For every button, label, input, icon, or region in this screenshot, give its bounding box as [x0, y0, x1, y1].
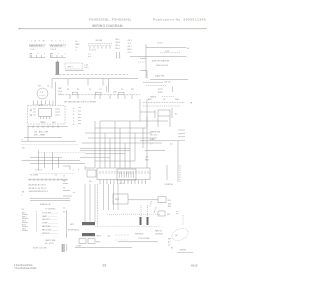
jpeg artifact dot — [191, 102, 192, 103]
switch SW2 base wire — [50, 57, 66, 59]
board drop wire e — [108, 184, 110, 210]
board drop wire b — [89, 184, 91, 222]
svg-text:GR GN: GR GN — [165, 82, 172, 84]
supply wire L1 — [146, 47, 186, 49]
svg-text:J2: J2 — [63, 176, 65, 178]
wire h8 — [85, 153, 125, 155]
fuse block lead — [63, 165, 70, 167]
svg-text:SENSOR ––––––––: SENSOR –––––––– — [42, 233, 58, 235]
svg-text:J4: J4 — [55, 175, 57, 177]
wire run 2 — [22, 140, 77, 142]
wire v1 — [94, 121, 96, 168]
svg-text:COMP ––––––––––: COMP –––––––––– — [42, 223, 58, 225]
wire h10 — [95, 160, 135, 162]
wire v4 — [109, 138, 111, 168]
switch SW1 contact row — [29, 43, 46, 45]
wire v12 — [146, 99, 148, 168]
svg-text:8-18: 8-18 — [168, 203, 171, 205]
wire h4 — [88, 137, 157, 139]
svg-text:60HZ 1PH 15A FUSE: 60HZ 1PH 15A FUSE — [152, 59, 170, 62]
thermostat pair pins — [116, 52, 118, 58]
splice mark — [66, 244, 68, 251]
svg-text:FAN EVAP ––––––: FAN EVAP –––––– — [42, 225, 57, 228]
shield pin — [172, 87, 174, 93]
dashed branch wire — [138, 61, 146, 63]
timer terminal node 1 — [30, 109, 32, 111]
valve wire — [128, 199, 158, 201]
connector J1 pin ticks — [100, 171, 148, 174]
control board edge connector J1 — [97, 168, 150, 180]
svg-text:T T T: T T T — [51, 54, 68, 56]
svg-text:3 4: 3 4 — [170, 144, 173, 146]
harness trunk vertical — [145, 44, 147, 78]
wire v11 — [142, 128, 144, 148]
svg-text:L-55: L-55 — [85, 64, 89, 66]
svg-text:GN 7: GN 7 — [128, 46, 132, 48]
bracket right — [66, 210, 68, 238]
bus drop wire B — [67, 79, 69, 86]
wire v10 — [139, 99, 141, 121]
svg-text:P11: P11 — [131, 89, 134, 91]
fan motor box 1 — [79, 239, 86, 244]
svg-text:L1 N G: L1 N G — [157, 42, 163, 44]
timer left feed wire — [27, 126, 29, 142]
motor terminal strip — [33, 104, 55, 106]
svg-text:4–: 4– — [73, 117, 75, 119]
splice bus upper (dashed) — [107, 213, 160, 215]
splice drop v2 — [147, 205, 149, 217]
dotted cable run 2 — [38, 152, 85, 154]
svg-text:3–: 3– — [73, 114, 75, 116]
svg-text:15A FUSE SEE NOTE 2: 15A FUSE SEE NOTE 2 — [29, 190, 48, 193]
wire v6 — [119, 128, 121, 168]
svg-text:BU 4: BU 4 — [22, 225, 26, 227]
wire h5 — [82, 142, 162, 144]
svg-text:K2: K2 — [175, 114, 177, 116]
ground dashed spur — [146, 85, 166, 87]
svg-text:BR 8: BR 8 — [128, 49, 132, 51]
svg-text:L N G W: L N G W — [31, 41, 46, 43]
splice bar S2 — [147, 217, 149, 225]
svg-text:FRZ LIGHT SW: FRZ LIGHT SW — [50, 45, 62, 47]
wire v9 — [134, 133, 136, 161]
riser wire d — [58, 157, 60, 168]
dotted tie line 2 — [115, 239, 128, 241]
svg-text:REG: REG — [145, 160, 149, 162]
board rail wire — [97, 184, 99, 226]
selector switch S3 contact strip — [88, 43, 112, 45]
long drop wire — [177, 141, 179, 182]
aux contact box — [158, 211, 165, 216]
svg-text:T T T: T T T — [31, 54, 48, 56]
inspection stamp — [170, 226, 190, 242]
svg-text:12: 12 — [63, 207, 65, 209]
svg-text:(CAB) GRN: (CAB) GRN — [155, 75, 165, 78]
dotted cable run — [22, 144, 80, 146]
wire h2 — [95, 127, 147, 129]
bus drop wire C — [87, 79, 89, 86]
svg-text:P1: P1 — [67, 89, 69, 91]
svg-text:1 2: 1 2 — [150, 144, 153, 146]
svg-text:YL 6: YL 6 — [128, 43, 132, 45]
svg-text:1 2 3 4 5: 1 2 3 4 5 — [89, 50, 96, 52]
wire h9 — [80, 156, 110, 158]
svg-text:WH-2: WH-2 — [116, 42, 121, 44]
splice drop v1 — [140, 205, 142, 217]
bottom bus wire — [75, 247, 132, 249]
left column wire 2 — [63, 190, 70, 192]
svg-text:P9: P9 — [121, 89, 123, 91]
wire h1 — [100, 120, 168, 122]
svg-text:GN 5: GN 5 — [22, 229, 26, 231]
svg-text:EVAP: EVAP — [150, 138, 155, 141]
solenoid V1 — [158, 197, 166, 203]
wire v5 — [114, 121, 116, 168]
svg-text:P6: P6 — [22, 209, 24, 211]
wire v2 — [99, 121, 101, 168]
svg-text:BK-1: BK-1 — [116, 39, 120, 41]
splice bars — [61, 244, 63, 252]
mullion heater bar — [82, 233, 95, 236]
terminal strip row 2 — [143, 105, 180, 107]
svg-text:8HR – 21MIN: 8HR – 21MIN — [34, 135, 46, 137]
serial underline — [118, 241, 158, 243]
svg-text:F-10: F-10 — [85, 67, 89, 69]
twin cable run lower — [30, 199, 70, 201]
motor terminal pins — [33, 101, 35, 105]
strip drop wires — [69, 95, 71, 99]
tick rows — [178, 129, 185, 131]
wire h3 — [85, 132, 152, 134]
svg-text:MTR: MTR — [39, 105, 44, 107]
shield dash marks — [162, 95, 174, 97]
svg-text:DESIGN: DESIGN — [180, 249, 187, 251]
drop wire r1 — [146, 116, 148, 127]
svg-text:BK WH RD BU OR YL: BK WH RD BU OR YL — [29, 185, 47, 187]
neutral wire N — [130, 56, 186, 58]
heater lead wire — [56, 60, 58, 62]
resistor R1 — [73, 92, 78, 95]
svg-text:FILL: FILL — [167, 214, 171, 216]
svg-text:OR 5: OR 5 — [128, 40, 132, 42]
dotted underline — [33, 173, 75, 175]
svg-text:DOOR SW –––––––: DOOR SW ––––––– — [42, 212, 58, 214]
svg-text:LAMP ––––––––––: LAMP –––––––––– — [42, 215, 57, 218]
feed wire — [140, 111, 155, 113]
svg-text:SHLD: SHLD — [158, 92, 163, 94]
riser — [154, 110, 156, 118]
tick pair — [176, 211, 179, 213]
svg-text:242169201: 242169201 — [155, 233, 163, 235]
svg-text:e 4: e 4 — [73, 192, 75, 194]
svg-text:SOL: SOL — [168, 200, 172, 202]
svg-text:GND LUG 8-32: GND LUG 8-32 — [156, 65, 168, 67]
svg-text:4 3 2 1: 4 3 2 1 — [119, 183, 125, 185]
aux relay K1 — [87, 170, 96, 177]
resistor R2 — [96, 92, 102, 95]
timer terminal node 2 — [30, 114, 32, 116]
wire run 5 — [30, 162, 85, 164]
svg-text:SER MOD: SER MOD — [135, 234, 144, 236]
svg-text:2 4 6 8: 2 4 6 8 — [51, 49, 57, 51]
svg-text:CAB LIGHT SW: CAB LIGHT SW — [30, 44, 42, 47]
svg-text:P4 CONN: P4 CONN — [30, 175, 39, 177]
wire run 1 — [24, 137, 62, 139]
svg-text:# Functional Parts: # Functional Parts — [14, 264, 33, 267]
svg-text:RUN: RUN — [58, 94, 63, 96]
svg-text:NOTE: COLORS: NOTE: COLORS — [33, 247, 47, 249]
dotted tie line 1 — [115, 234, 130, 236]
svg-text:1BK 2WH 3RD 4BU 5OR 6YL: 1BK 2WH 3RD 4BU 5OR 6YL 7GN 8BR — [64, 102, 97, 104]
svg-text:OL: OL — [47, 86, 49, 88]
ground bus wire — [150, 79, 188, 81]
drop wire r3 — [169, 116, 171, 127]
svg-text:K1+: K1+ — [89, 181, 92, 183]
svg-text:RIBBON 14P: RIBBON 14P — [40, 204, 51, 206]
wire v7 — [124, 143, 126, 168]
selector switch S3 contact pins — [89, 46, 91, 49]
relay feed wire — [85, 167, 95, 169]
bus drop wire E — [108, 79, 110, 93]
svg-text:P7: P7 — [100, 89, 102, 91]
board drop wire d — [103, 184, 105, 210]
svg-text:FSH533SQL, FSH533A5L: FSH533SQL, FSH533A5L — [89, 17, 132, 21]
timer cam pins — [40, 117, 42, 120]
svg-text:T-STAT NO: T-STAT NO — [164, 183, 174, 186]
svg-text:L1 BK: L1 BK — [76, 245, 82, 247]
icemaker connector box — [117, 169, 136, 180]
board drop wire a — [84, 184, 86, 222]
connector J1 lower pins — [100, 180, 146, 185]
svg-text:SEL SW: SEL SW — [96, 40, 103, 42]
svg-text:P5: P5 — [89, 89, 91, 91]
svg-text:2–: 2– — [73, 111, 75, 113]
svg-text:NTC 25C: NTC 25C — [150, 135, 158, 137]
heater bar H2 — [82, 222, 95, 225]
twin cable run upper — [30, 197, 70, 199]
defrost thermostat box (dashed) — [65, 63, 83, 69]
relay K2 — [158, 110, 170, 116]
svg-text:BU-4: BU-4 — [116, 48, 120, 50]
svg-text:FAN COND ––––––: FAN COND –––––– — [42, 228, 58, 231]
svg-text:WH 2: WH 2 — [22, 217, 27, 219]
svg-text:CAVITY REF: CAVITY REF — [45, 239, 56, 242]
svg-text:F C G L: F C G L — [52, 41, 66, 43]
main bus wire — [52, 78, 138, 80]
wire v3 — [104, 133, 106, 168]
svg-text:6919: 6919 — [191, 263, 198, 267]
svg-text:WIRING DIAGRAM: WIRING DIAGRAM — [92, 24, 123, 28]
ground spur wire — [143, 81, 163, 83]
svg-text:TIMER: TIMER — [40, 122, 46, 124]
svg-text:* Non-Illustrated Parts: * Non-Illustrated Parts — [14, 267, 37, 270]
cable loom run — [55, 74, 128, 76]
svg-text:2 3 4 1 5: 2 3 4 1 5 — [35, 170, 42, 172]
svg-text:THERM 10K: THERM 10K — [150, 131, 161, 133]
stub wire — [140, 57, 146, 59]
bus drop wire D — [102, 79, 104, 86]
supply stub — [145, 150, 165, 152]
board drop wire f — [113, 184, 115, 210]
bus wire right — [140, 140, 178, 142]
wire h7 — [80, 150, 130, 152]
svg-text:P3: P3 — [77, 89, 79, 91]
svg-text:TYPE R-134A: TYPE R-134A — [138, 237, 150, 240]
svg-text:WH 2: WH 2 — [97, 235, 102, 237]
svg-text:DEF HTR –––––––: DEF HTR ––––––– — [42, 219, 57, 221]
svg-text:RD-3: RD-3 — [116, 45, 120, 47]
header rule — [19, 28, 207, 30]
riser wire a — [38, 150, 40, 170]
svg-text:P8 WH RD 14: P8 WH RD 14 — [68, 230, 79, 232]
svg-text:BK 1: BK 1 — [22, 213, 26, 215]
svg-text:1–: 1– — [73, 108, 75, 110]
relay K2 pin — [171, 108, 173, 118]
svg-text:1: 1 — [22, 194, 23, 196]
timer motor block — [39, 109, 52, 117]
wire v8 — [129, 121, 131, 168]
svg-text:1 3 5 7: 1 3 5 7 — [30, 49, 36, 51]
svg-text:GY 9: GY 9 — [128, 52, 132, 54]
svg-text:CW – ADV – DEF: CW – ADV – DEF — [34, 131, 49, 134]
svg-text:NO. 10–22: NO. 10–22 — [45, 243, 54, 245]
left column wire 3 — [63, 195, 72, 197]
switch SW1 base wire — [30, 57, 46, 59]
dashed drop — [182, 215, 184, 225]
svg-text:WTR: WTR — [115, 199, 120, 201]
splice bus lower (dashed) — [95, 225, 160, 227]
defrost heater DH1 body — [56, 62, 59, 75]
drop wire r2 — [157, 116, 159, 127]
bracket bar — [36, 211, 38, 232]
run capacitor lead — [55, 82, 57, 106]
wire h6 — [80, 147, 130, 149]
board drop wire g — [117, 184, 119, 210]
terminal strip row 1 — [143, 102, 185, 104]
left column wire — [63, 182, 68, 184]
resistor R3 — [119, 92, 125, 95]
riser wire c — [52, 152, 54, 170]
svg-text:6: 6 — [78, 170, 79, 172]
stub wire 2 — [140, 69, 147, 71]
wire under thermostat — [65, 70, 84, 72]
svg-text:03: 03 — [168, 245, 170, 247]
lead wire R — [179, 165, 181, 182]
board drop wire c — [94, 184, 96, 222]
wire run 3 — [30, 156, 62, 158]
svg-text:Publication No. 5995512345: Publication No. 5995512345 — [153, 17, 206, 21]
svg-text:5–: 5– — [73, 121, 75, 123]
riser wire b — [44, 152, 46, 168]
svg-text:3: 3 — [22, 139, 23, 141]
switch SW2 contact row — [50, 43, 67, 45]
harness P4 spine — [28, 179, 68, 181]
water valve box — [113, 194, 128, 204]
svg-text:GN BR GY PK TN VT: GN BR GY PK TN VT — [29, 188, 47, 190]
supply tap — [160, 52, 180, 54]
compressor motor M1 — [37, 88, 48, 99]
svg-text:GND: GND — [175, 99, 180, 101]
component strip bus — [62, 94, 140, 96]
harness P4 pins — [30, 178, 66, 181]
svg-text:6–: 6– — [73, 124, 75, 126]
svg-text:MTR: MTR — [97, 242, 102, 244]
svg-text:o–o: o–o — [88, 56, 91, 58]
fan motor box 2 — [88, 239, 95, 244]
svg-text:MED: MED — [76, 44, 81, 46]
svg-text:RD 3: RD 3 — [22, 221, 26, 223]
bus drop wire A — [51, 79, 53, 89]
svg-text:2: 2 — [73, 170, 74, 172]
svg-text:4 W: 4 W — [22, 148, 25, 150]
sign line — [177, 252, 193, 254]
svg-text:TO DISPLAY: TO DISPLAY — [45, 207, 56, 210]
splice bar S1 — [140, 217, 142, 225]
wire run 4 — [22, 159, 81, 161]
wire under timer — [28, 126, 69, 128]
svg-text:23: 23 — [103, 264, 107, 268]
branch vertical — [146, 70, 148, 78]
svg-text:DEF T: DEF T — [68, 66, 74, 68]
timer box T1 — [28, 106, 66, 125]
lead wire L — [166, 165, 168, 180]
